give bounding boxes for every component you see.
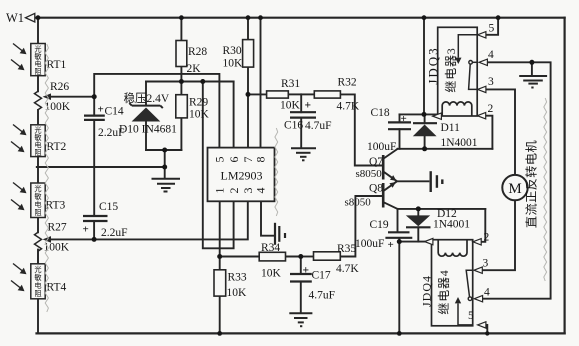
relay JDQ4 coil [438,240,467,256]
relay JDQ3 contact [458,35,477,58]
svg-text:100uF: 100uF [367,141,396,153]
svg-text:4: 4 [488,49,494,61]
svg-text:电: 电 [34,281,41,290]
svg-text:100K: 100K [45,101,71,113]
wire R35 left [301,256,314,258]
svg-text:W1: W1 [6,11,24,25]
wire C18/D11 top node line [400,113,438,115]
wire motor bottom to JDQ4 pin3 [482,200,515,270]
svg-text:光: 光 [34,184,41,193]
svg-text:4: 4 [254,188,268,194]
wire top +V rail [36,17,565,19]
wire LM2903 pin8 from rail [260,18,262,148]
wire D12 cathode leg [417,227,419,241]
svg-text:4.7K: 4.7K [336,263,359,275]
transistor Q7 s8050 [356,155,397,181]
wire right frame vertical [563,18,565,334]
photoresistor RT2 [11,125,67,158]
svg-text:JDQ3: JDQ3 [425,46,440,84]
wire pin1 node to R33 [219,257,221,270]
wire Q7 collector node line [398,148,493,150]
wire left sensor chain segments [37,18,39,334]
resistor R35 [314,243,360,275]
capacitor C14 [84,104,125,140]
wire reference node line [146,81,234,83]
svg-text:s8050: s8050 [345,197,372,209]
svg-text:R35: R35 [337,243,356,255]
svg-text:2: 2 [227,188,241,194]
svg-text:+: + [98,104,104,116]
wire C18 bottom leg [399,129,401,149]
wire bridge midpoint to ground node [37,166,165,168]
ground (relay commons, top right) [519,76,547,88]
svg-text:阻: 阻 [34,148,41,157]
wire ref node to LM2903 pin2 (down, right, up) [203,82,234,249]
svg-text:2.2uF: 2.2uF [101,227,128,239]
node B - R27 wiper / C15 / pin 3 [92,237,97,242]
svg-text:C17: C17 [312,270,331,282]
svg-text:1N4001: 1N4001 [433,219,470,231]
wire D10/R29 bottom link [146,149,181,151]
capacitor C19 [355,219,412,251]
wire C16 bottom leg to ground [300,118,302,148]
capacitor C17 [290,265,335,302]
relay JDQ4 pin 3 arrow [474,267,482,273]
wire bottom rail [37,332,565,334]
svg-text:6: 6 [227,157,241,163]
junction top rail / JDQ3 pin 5 [496,15,501,20]
relay JDQ3 pin 3 arrow [478,86,486,92]
svg-text:Q7: Q7 [369,156,383,168]
wire C14 node up and right to LM2903 pin5 [94,74,219,148]
transistor Q8 s8050 [345,182,397,209]
junction top rail / R28 [179,15,184,20]
wire emitter junction to sideways ground [396,180,428,182]
wire D10 anode node down to ground [164,150,166,178]
svg-text:R31: R31 [281,78,300,90]
svg-text:R27: R27 [48,222,67,234]
resistor R30 [223,40,254,70]
relay JDQ4 pin 5 arrow [478,322,486,328]
svg-text:C15: C15 [99,201,118,213]
wire LM2903 pin1 down [219,201,221,256]
wire C17 bottom leg [300,282,302,313]
wire R27 wiper line to LM2903 pin3 [50,201,248,239]
wire R26 wiper to C14 node [50,96,94,98]
svg-text:M: M [508,181,521,197]
diode D12 1N4001 [406,208,471,231]
capacitor C15 [83,201,128,239]
svg-text:阻: 阻 [34,208,41,217]
svg-text:D11: D11 [441,122,461,134]
junction D10 anode / R29 bottom [162,148,167,153]
junction reference node / pin 2 branch [200,79,205,84]
wire R35 right up to Q8 base [340,196,382,257]
wire LM2903 pin4 to sideways ground [261,201,274,235]
svg-text:C19: C19 [370,219,389,231]
svg-text:D10 IN4681: D10 IN4681 [119,124,177,136]
svg-text:1N4001: 1N4001 [441,137,478,149]
svg-text:C14: C14 [105,106,124,118]
svg-text:R29: R29 [189,97,208,109]
ground (bridge/zener) [152,179,181,192]
wire C15 bottom leg [93,221,95,239]
svg-text:4.7uF: 4.7uF [309,290,336,302]
wire R30 bottom to pin7 node [247,67,249,148]
svg-text:+: + [305,100,312,112]
wire Q7 emitter diagonal [384,172,397,181]
relay JDQ3 pin 2 arrow [477,113,485,119]
photoresistor RT4 [11,264,67,299]
wire C19 bottom leg to bottom rail [398,238,400,333]
junction D11 anode / Q7 collector line [422,146,427,151]
junction bottom rail / R33 [217,331,222,336]
svg-text:4.7uF: 4.7uF [305,120,332,132]
svg-text:5: 5 [468,310,474,322]
wire JDQ3 pin2 down to collector line [485,116,492,149]
wire D10 cathode up [145,82,147,105]
svg-text:C18: C18 [371,107,390,119]
svg-text:阻: 阻 [34,289,41,298]
svg-text:R26: R26 [50,81,69,93]
wire R32 left [301,93,314,95]
junction R34 / C17 / R35 [298,254,303,259]
wire ref node to LM2903 pin6 [233,82,235,148]
junction top rail / LM2903 pin 8 [258,15,263,20]
svg-text:光: 光 [34,265,41,274]
svg-text:C16: C16 [284,120,303,132]
wire D12 top node line [398,208,486,210]
wire D11 anode leg [424,136,426,149]
junction R30 / R31 / pin 7 [246,92,251,97]
svg-text:s8050: s8050 [356,168,383,180]
junction C19 / D12 cathode / JDQ4 coil [397,239,402,244]
svg-text:10K: 10K [280,100,301,112]
svg-text:4.7K: 4.7K [337,101,360,113]
wire relay common ground drop [531,62,533,75]
wire Q8 emitter diagonal [384,202,398,209]
svg-text:+: + [303,265,310,277]
resistor R29 [176,95,210,121]
wire C18 top leg [399,114,401,122]
wire JDQ3 pin5 up to rail [486,18,498,35]
wire Q7 collector diagonal [384,149,398,159]
svg-text:电: 电 [34,200,41,209]
capacitor C16 [284,100,332,133]
wire JDQ3 pin3 down to motor top [486,89,515,175]
diode D11 1N4001 [413,122,478,149]
svg-text:2K: 2K [187,63,202,75]
wire C16 top leg [300,94,302,112]
wire JDQ3 pin4 to JDQ4 pin4 (ground link) [482,62,550,298]
svg-text:RT2: RT2 [47,141,67,153]
ground (emitters, sideways) [431,171,443,192]
wire R34 left [220,256,260,258]
junction relay common / ground drop [529,60,534,65]
relay JDQ3 coil [442,102,472,116]
resistor R31 [267,78,301,112]
svg-text:RT1: RT1 [47,59,67,71]
resistor R32 [314,77,360,113]
relay JDQ4 contact [458,304,473,325]
relay JDQ4 pin 4 arrow [474,296,482,302]
junction bottom rail / JDQ4 pin 5 [485,331,489,335]
wire JDQ4 pin2 up to D12 line [480,209,485,242]
wire R28 bottom [180,67,182,82]
svg-text:+: + [401,113,407,125]
svg-text:3: 3 [483,258,489,270]
wire D12 bottom node line to JDQ4 coil pin1 [399,241,425,243]
svg-text:RT4: RT4 [47,282,67,294]
wire R31 right to C16 node [288,93,301,95]
svg-text:直流正反转电机: 直流正反转电机 [524,140,539,228]
relay JDQ3 pin 4 arrow [479,59,487,65]
junction top rail / R30 [246,15,251,20]
svg-text:RT3: RT3 [46,200,66,212]
junction reference node / R28 / R29 [179,79,184,84]
svg-text:R30: R30 [223,45,242,57]
wire C14 top leg [93,97,95,116]
relay JDQ4 pin 1 arrow [425,238,433,244]
junction bottom rail / C19 [397,331,402,336]
ground (C16) [291,148,316,160]
svg-text:敏: 敏 [34,192,41,201]
wire R28 top [180,18,182,41]
capacitor C18 [367,107,411,153]
svg-text:5: 5 [489,23,495,35]
svg-text:2: 2 [488,103,494,115]
relay JDQ3 pin 1 arrow [433,113,442,119]
svg-text:4: 4 [484,287,490,299]
ground (LM2903 pin4, sideways) [275,223,285,245]
junction D12 anode / Q8 emitter line [416,206,421,211]
svg-text:稳压2.4V: 稳压2.4V [124,91,170,105]
svg-text:+: + [83,224,89,236]
input W1 [6,11,35,25]
junction bridge midpoint / ground [162,165,167,170]
resistor R34 [259,242,285,280]
svg-text:10K: 10K [227,287,248,299]
wire D10 anode down [145,122,147,151]
relay JDQ4 (relay 4) [420,232,490,329]
ground (C17) [289,313,312,326]
junction pin 1 / R33 / R34 [217,254,222,259]
junction W1 / top rail / RT1 chain [36,15,41,20]
svg-text:100K: 100K [44,242,70,254]
svg-text:3: 3 [488,76,494,88]
relay JDQ4 pin 2 arrow [473,239,481,245]
junction relay supply / D11 cathode / C18 [422,112,427,117]
wire R31 left [248,93,267,95]
svg-text:阻: 阻 [34,67,41,76]
svg-text:+: + [388,239,394,251]
relay JDQ3 pin 5 arrow [478,32,486,38]
resistor R28 [176,41,207,76]
wire C14 bottom to C15 top [93,120,95,216]
motor M (DC reversible motor) [502,140,538,228]
svg-text:10K: 10K [189,109,210,121]
potentiometer R27 [35,222,70,264]
svg-text:100uF: 100uF [355,238,384,250]
svg-text:8: 8 [254,157,268,163]
wire JDQ4 pin5 to bottom rail [486,325,487,334]
relay JDQ3 (relay 3) [425,23,494,120]
svg-text:5: 5 [213,157,227,163]
wire C19 top leg [397,209,399,232]
svg-text:Q8: Q8 [369,183,383,195]
svg-text:R34: R34 [261,242,280,254]
svg-text:10K: 10K [223,58,244,70]
svg-text:JDQ4: JDQ4 [420,275,434,307]
wire R29 bottom [180,118,182,150]
wire C17 top leg [300,257,302,275]
wire R32 right down to Q7 base [340,94,382,165]
svg-text:继电器4: 继电器4 [437,269,451,314]
svg-text:R28: R28 [188,46,207,58]
wire R29 top [180,82,182,95]
op-amp comparator U1 LM2903 [208,148,275,202]
wire D11 cathode leg [424,114,426,123]
wire R34 right [286,256,301,258]
potentiometer R26 [35,81,71,113]
wire R33 bottom [219,296,221,333]
svg-text:R33: R33 [228,272,247,284]
wire R30 top [247,18,249,40]
svg-text:LM2903: LM2903 [221,169,263,183]
zener diode D10 (2.4V) [119,91,177,136]
svg-text:继电器3: 继电器3 [444,47,458,92]
wire relay supply drop from rail [423,18,425,115]
junction top rail / relay supply [422,15,427,20]
wire D12 anode leg [417,209,419,216]
svg-text:10K: 10K [261,268,282,280]
svg-text:敏: 敏 [34,273,41,282]
photoresistor RT1 [11,44,67,77]
node A - R26 wiper / C14 / pin 5 [92,94,97,99]
svg-text:R32: R32 [338,77,357,89]
svg-text:1: 1 [213,188,227,194]
photoresistor RT3 [11,183,66,218]
svg-text:2: 2 [484,232,490,244]
wire Q8 collector diagonal [384,182,397,191]
resistor R33 [214,270,247,299]
